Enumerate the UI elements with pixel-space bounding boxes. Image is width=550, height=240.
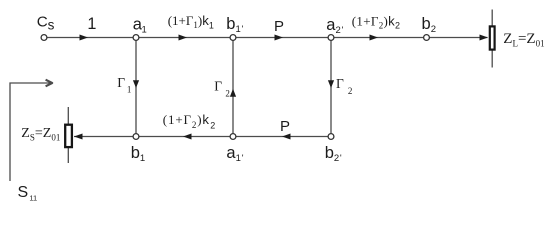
svg-text:P: P — [280, 118, 290, 135]
svg-text:1: 1 — [87, 15, 96, 33]
svg-text:(1+Γ2)k2: (1+Γ2)k2 — [352, 13, 401, 30]
svg-text:P: P — [274, 18, 284, 35]
svg-text:(1+Γ1)k1: (1+Γ1)k1 — [168, 13, 214, 30]
